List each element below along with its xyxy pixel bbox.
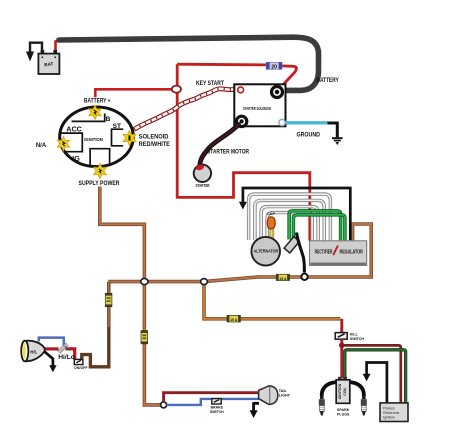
- wire black tail ground: [254, 403, 259, 411]
- svg-text:STARTER: STARTER: [196, 183, 210, 188]
- node red junction: [339, 343, 345, 349]
- svg-text:N/A: N/A: [36, 143, 47, 149]
- svg-text:KEY START: KEY START: [196, 80, 224, 87]
- svg-text:SWITCH: SWITCH: [350, 337, 365, 341]
- fuse 15A (kill feed): [227, 315, 240, 322]
- svg-text:REGULATOR: REGULATOR: [340, 250, 364, 256]
- fuse 15A (headlight drop): [105, 293, 112, 306]
- ignition switch body: [60, 107, 134, 167]
- wire cyan ground: [286, 121, 329, 124]
- svg-text:BATTERY: BATTERY: [317, 77, 340, 84]
- fuse 15A (tail drop): [141, 331, 148, 344]
- svg-text:COIL: COIL: [343, 386, 347, 395]
- wire red fuse to solenoid battery terminal: [281, 66, 297, 88]
- wire red top horizontal to fuse: [177, 63, 266, 67]
- wire brown kill switch feed: [204, 282, 340, 319]
- wire brown bus right to rectifier: [204, 224, 371, 282]
- starter motor body: [194, 165, 211, 182]
- wire red main from fuse corner down through key ellipse to staircase: [177, 64, 310, 240]
- wire black ground: [328, 123, 338, 137]
- connector star battery+: [89, 105, 101, 119]
- svg-text:15 A: 15 A: [279, 277, 287, 281]
- wire starter motor cable: [200, 125, 239, 167]
- spark plug left: [319, 396, 325, 416]
- wire brown tail light drop: [144, 282, 161, 405]
- spark plug wire right: [349, 382, 364, 396]
- capacitor CAP: [267, 212, 275, 239]
- tail light body: [259, 386, 278, 405]
- svg-text:GROUND: GROUND: [297, 132, 321, 139]
- ground arrow (battery negative): [26, 52, 34, 62]
- stator wire loop 4 (inner): [267, 213, 312, 241]
- switch tab B: [72, 114, 105, 122]
- svg-text:H/L: H/L: [30, 350, 37, 355]
- node junction ring (kill feed): [201, 279, 208, 285]
- svg-text:IGNITION: IGNITION: [84, 137, 103, 143]
- ignition coil body: [336, 380, 350, 404]
- stator wire loop 1 (outer): [249, 194, 331, 240]
- headlight body: [21, 341, 45, 362]
- wire green charge 2: [293, 215, 345, 241]
- stator wire loop 2: [255, 200, 324, 240]
- wire green charge 1: [289, 211, 341, 240]
- terminal solenoid battery (black ring): [272, 87, 283, 98]
- svg-text:TAIL: TAIL: [279, 389, 288, 393]
- node black ring junction: [301, 274, 307, 280]
- spark plug right: [361, 396, 367, 416]
- svg-text:RED/WHITE: RED/WHITE: [139, 141, 171, 148]
- svg-text:Ignition: Ignition: [383, 416, 395, 420]
- svg-text:STARTER MOTOR: STARTER MOTOR: [207, 148, 249, 155]
- wire battery positive (red link): [56, 40, 62, 53]
- svg-text:BATTERY +: BATTERY +: [84, 98, 111, 105]
- stator wire loop 3: [261, 207, 318, 241]
- switch brake: [212, 399, 221, 404]
- connector star supply power: [94, 163, 107, 178]
- ground symbol (solenoid): [332, 137, 343, 145]
- svg-text:SWITCH: SWITCH: [210, 410, 224, 414]
- wire red headlight to hi/lo: [44, 347, 59, 350]
- wire red kill switch drop: [340, 319, 343, 333]
- svg-text:ON/OFF: ON/OFF: [74, 366, 88, 370]
- wire brown supply power down: [100, 187, 145, 279]
- svg-text:Hi/Lo: Hi/Lo: [58, 354, 74, 361]
- switch ON/OFF: [74, 359, 83, 364]
- svg-text:Electronic: Electronic: [383, 411, 399, 415]
- switch tab supply: [90, 149, 110, 166]
- svg-text:15 A: 15 A: [230, 318, 238, 322]
- svg-text:STARTER SOLENOID: STARTER SOLENOID: [243, 106, 271, 111]
- wire striped red/white ST to solenoid: [134, 89, 238, 130]
- wire dark red to pamco: [342, 345, 401, 402]
- wire blue brake to tail light: [167, 399, 261, 405]
- svg-text:IG: IG: [72, 154, 80, 163]
- rectifier regulator box: [310, 241, 367, 266]
- wire battery negative to ground: [30, 43, 42, 53]
- wire green coil to pamco: [345, 350, 406, 403]
- svg-text:ST: ST: [113, 123, 121, 130]
- ignition coil terminals: [338, 377, 341, 380]
- node junction ring tail: [161, 402, 167, 408]
- connector blade (parallelogram): [284, 237, 299, 253]
- wire brown headlight drop: [82, 282, 109, 367]
- connector star solenoid: [123, 130, 136, 145]
- wire black pamco ground with arrow: [367, 363, 387, 403]
- wire red hi/lo to on/off: [66, 349, 75, 360]
- wire blue headlight: [39, 338, 64, 347]
- svg-text:B: B: [106, 116, 111, 123]
- wire black rectifier ground with arrow: [243, 188, 350, 240]
- svg-text:20: 20: [271, 64, 277, 70]
- wire thick battery cable to solenoid: [59, 37, 319, 90]
- svg-text:SPARK: SPARK: [337, 408, 350, 412]
- wire black headlight ground: [45, 352, 53, 366]
- connector star N/A: [57, 137, 69, 151]
- svg-text:Pamco: Pamco: [383, 406, 394, 410]
- spark plug wire left: [322, 382, 338, 396]
- svg-text:ACC: ACC: [66, 125, 82, 134]
- alternator body: [251, 237, 280, 266]
- terminal solenoid starter (black ring): [236, 116, 246, 126]
- wire dark red tail light: [164, 393, 259, 402]
- terminal starter (red blob): [195, 164, 205, 172]
- svg-text:SOLENOID: SOLENOID: [139, 134, 169, 141]
- switch Hi/Lo: [59, 344, 69, 352]
- wire red battery+ feed to key start line: [95, 89, 177, 97]
- wire red kill to coil: [340, 339, 343, 378]
- node junction ring (supply/tail): [141, 279, 148, 285]
- svg-text:PLUGS: PLUGS: [337, 413, 350, 417]
- svg-text:IGNITION: IGNITION: [338, 383, 342, 399]
- svg-text:ALTERNATOR: ALTERNATOR: [254, 248, 279, 253]
- battery BAT: [38, 50, 59, 74]
- terminal solenoid key (red ring): [238, 87, 244, 93]
- switch kill: [335, 333, 347, 340]
- fuse 15A (bus near rectifier): [276, 274, 289, 281]
- svg-text:SUPPLY POWER: SUPPLY POWER: [79, 180, 120, 187]
- node key start ellipse: [172, 86, 181, 93]
- wire brown bus left: [108, 280, 204, 284]
- switch tab ACC: [61, 133, 83, 152]
- svg-text:CAP: CAP: [267, 212, 275, 216]
- starter solenoid box: [234, 84, 285, 126]
- pamco electronic ignition box: [380, 403, 408, 422]
- svg-text:LIGHT: LIGHT: [279, 393, 291, 397]
- svg-text:KILL: KILL: [350, 333, 359, 337]
- switch tab ST: [112, 129, 124, 146]
- svg-text:RECTIFIER: RECTIFIER: [315, 250, 333, 256]
- fuse 20A (blue): [266, 62, 282, 70]
- wire black alternator to bus: [297, 233, 305, 273]
- terminal solenoid ground: [279, 119, 285, 125]
